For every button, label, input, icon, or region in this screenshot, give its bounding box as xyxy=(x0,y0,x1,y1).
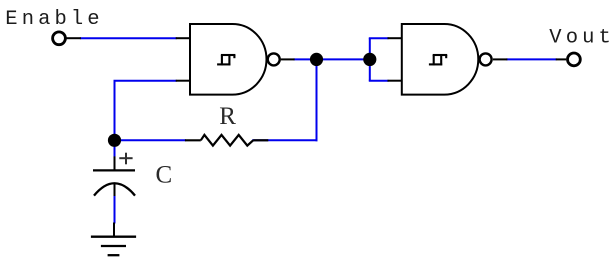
svg-text:Vout: Vout xyxy=(549,26,614,49)
svg-text:R: R xyxy=(219,103,236,130)
svg-text:C: C xyxy=(156,162,173,189)
svg-text:Enable: Enable xyxy=(5,8,103,31)
